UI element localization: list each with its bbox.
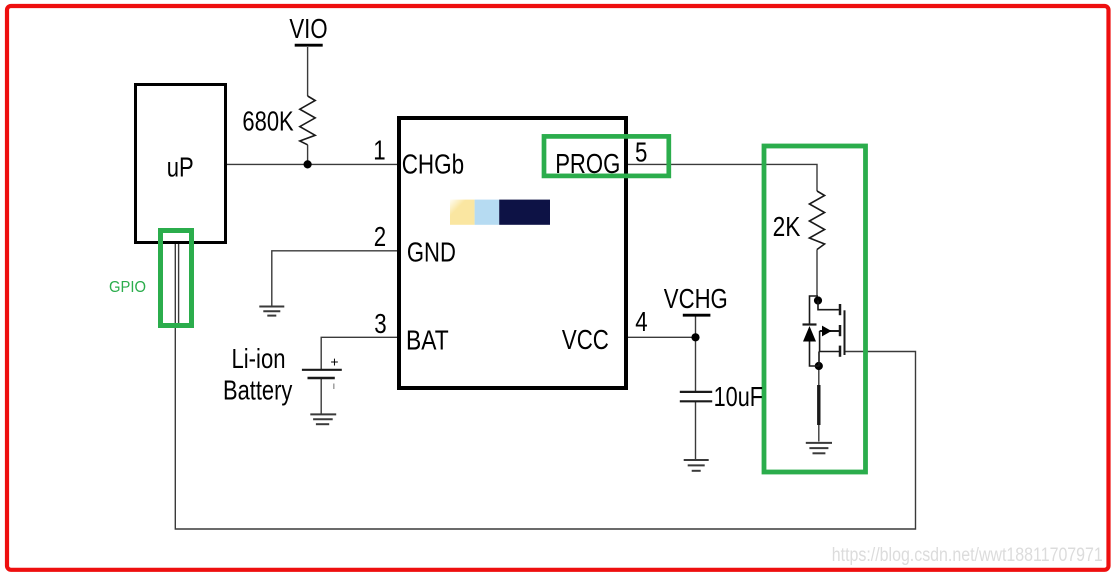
charger IC U1	[399, 118, 626, 388]
svg-text:uP: uP	[167, 151, 194, 182]
svg-text:GND: GND	[407, 236, 456, 267]
wire PROG pin 5 to 2K resistor	[626, 164, 817, 191]
svg-text:GPIO: GPIO	[109, 279, 146, 296]
drain node dot	[814, 296, 822, 304]
svg-text:BAT: BAT	[406, 325, 449, 356]
MOSFET Q1	[818, 301, 839, 367]
svg-text:VCC: VCC	[562, 324, 609, 355]
wire VCC pin 4 to VCHG node	[626, 336, 696, 338]
svg-text:1: 1	[373, 134, 385, 165]
wire BAT pin 3 to battery	[321, 337, 398, 369]
wire resistor 680K to node A	[307, 145, 309, 165]
svg-text:CHGb: CHGb	[402, 149, 464, 180]
wire uP to CHGb pin 1	[226, 163, 398, 165]
diode cathode bar	[803, 323, 817, 325]
svg-text:Battery: Battery	[223, 374, 292, 405]
ground (battery)	[310, 414, 336, 424]
battery minus tick	[333, 384, 335, 390]
svg-text:10uF: 10uF	[714, 381, 763, 412]
green highlight box GPIO	[161, 231, 192, 326]
wire VIO to resistor 680K	[307, 47, 309, 96]
ground (GND pin 2)	[259, 307, 284, 316]
source bar	[819, 351, 839, 353]
svg-text:2: 2	[374, 221, 386, 252]
body vertical	[819, 331, 821, 352]
wire battery to ground	[320, 378, 322, 414]
thick wire segment below source	[817, 385, 820, 425]
wire MOSFET source node to ground	[818, 366, 820, 442]
drain lead	[818, 301, 839, 310]
svg-text:3: 3	[374, 308, 386, 339]
capacitor C1 10uF	[680, 391, 712, 393]
resistor 680K	[300, 96, 315, 145]
svg-text:VIO: VIO	[289, 13, 327, 44]
svg-text:Li-ion: Li-ion	[232, 343, 286, 374]
svg-text:680K: 680K	[242, 105, 294, 136]
ground (MOSFET source)	[806, 443, 832, 453]
svg-text:5: 5	[635, 136, 647, 167]
wire capacitor to ground	[695, 401, 697, 459]
svg-text:https://blog.csdn.net/wwt18811: https://blog.csdn.net/wwt18811707971	[832, 544, 1103, 566]
wire VCHG bar to node	[695, 315, 697, 337]
svg-text:4: 4	[635, 306, 647, 337]
wire MOSFET gate to uP GPIO (right and bottom run)	[175, 326, 915, 529]
svg-text:VCHG: VCHG	[664, 283, 728, 314]
uP block U2	[136, 85, 226, 243]
svg-text:2K: 2K	[773, 211, 801, 242]
diode triangle	[803, 326, 816, 342]
VCHG node dot	[691, 333, 699, 341]
node A junction dot (680K / CHGb)	[304, 160, 312, 168]
channel segment bottom	[839, 346, 842, 357]
wire GPIO pin line B	[178, 244, 180, 324]
wire node to capacitor C1	[695, 337, 697, 392]
body arrow line	[820, 330, 839, 332]
wire GPIO pin line A	[174, 244, 176, 326]
wire GND pin 2 to ground	[272, 251, 398, 306]
ground (capacitor)	[684, 460, 709, 471]
channel segment middle	[839, 325, 842, 336]
channel segment top	[839, 304, 842, 315]
body diode D1	[810, 296, 819, 366]
svg-text:+: +	[330, 354, 338, 370]
body arrow head	[822, 326, 832, 337]
resistor 2K	[809, 191, 824, 250]
gate bar	[844, 310, 846, 355]
wire 2K resistor to drain node	[816, 250, 818, 302]
green highlight box PROG	[544, 136, 669, 176]
battery B1	[302, 369, 342, 371]
green highlight box MOSFET branch	[764, 146, 866, 472]
source node dot	[815, 362, 823, 370]
